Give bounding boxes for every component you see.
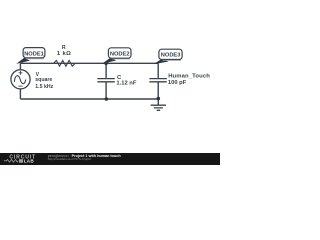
node NODE2 flag shadow xyxy=(112,58,131,60)
voltage source V1 circle xyxy=(11,70,30,89)
footer logo block xyxy=(19,159,23,163)
voltage source V1 minus sign xyxy=(18,85,22,87)
footer bar xyxy=(0,153,220,165)
svg-text:NODE3: NODE3 xyxy=(161,53,181,59)
svg-text:R: R xyxy=(62,45,66,51)
node NODE3 flag tail xyxy=(153,59,168,64)
junction dot bottom rail at C xyxy=(105,97,109,101)
ground stub wire xyxy=(157,99,159,105)
svg-text:1 kΩ: 1 kΩ xyxy=(57,51,71,57)
resistor R zigzag xyxy=(54,60,76,66)
node NODE2 flag tail xyxy=(102,58,117,64)
wire top rail xyxy=(20,62,158,64)
wire left column (source legs) xyxy=(19,63,21,99)
svg-text:100 pF: 100 pF xyxy=(168,80,187,86)
junction dot at NODE2 top rail xyxy=(104,62,108,66)
voltage source V1 plus sign xyxy=(19,71,23,75)
wire bottom rail xyxy=(20,98,158,100)
svg-text:Human_Touch: Human_Touch xyxy=(168,74,210,80)
capacitor Human_Touch plates xyxy=(149,79,166,82)
wire C column legs xyxy=(105,63,107,99)
junction dot bottom rail at ground xyxy=(157,97,161,101)
node NODE3 flag shadow xyxy=(163,59,182,61)
node NODE1 flag box xyxy=(23,48,45,58)
svg-text:1.5 kHz: 1.5 kHz xyxy=(35,84,53,90)
svg-text:1.12 nF: 1.12 nF xyxy=(116,81,136,87)
svg-text:square: square xyxy=(35,77,52,83)
node NODE1 flag tail xyxy=(16,58,30,64)
svg-text:NODE1: NODE1 xyxy=(24,51,44,57)
node NODE3 flag box xyxy=(159,49,182,59)
capacitor C plates xyxy=(97,79,114,82)
wire right column legs xyxy=(157,63,159,99)
node NODE1 flag shadow xyxy=(26,58,44,60)
voltage source V1 sine wave xyxy=(14,76,25,84)
svg-text:LAB: LAB xyxy=(24,159,35,164)
node NODE2 flag box xyxy=(108,48,131,58)
svg-text:NODE2: NODE2 xyxy=(110,52,130,58)
svg-text:http://circuitlab.com/c7577e72: http://circuitlab.com/c7577e72q0wf xyxy=(48,157,91,161)
ground symbol bars xyxy=(151,105,166,110)
footer logo resistor zigzag xyxy=(4,159,18,162)
